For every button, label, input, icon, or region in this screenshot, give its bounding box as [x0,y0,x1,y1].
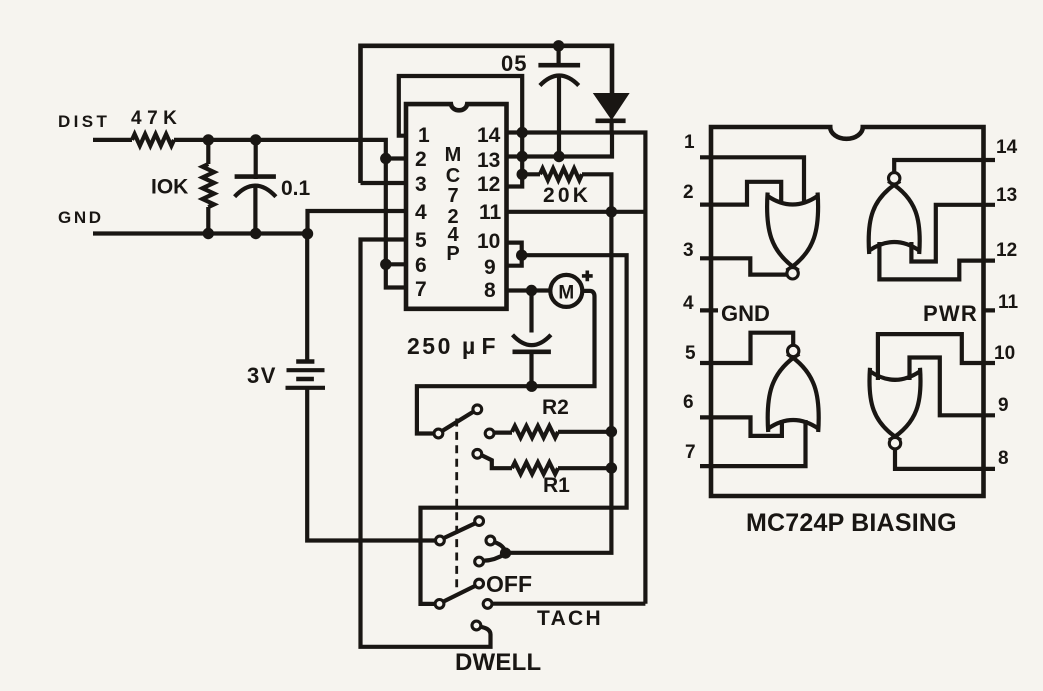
svg-text:TACH: TACH [537,607,603,630]
junction dot pins 9/10 [516,250,527,261]
biasing pin stubs right [984,160,996,469]
plus polarity mark [582,271,593,282]
junction dot DIST/10K [203,134,214,145]
svg-text:GND: GND [58,208,104,227]
junction dot pin 11 [606,206,617,217]
wire pin 7 to G3 input [711,420,806,466]
svg-text:6: 6 [683,392,694,413]
svg-text:14: 14 [477,124,501,147]
gate G3 NOR bottom-left [768,354,819,432]
svg-text:05: 05 [501,51,527,76]
svg-text:PWR: PWR [923,301,978,326]
motor M [417,275,595,434]
svg-text:µ: µ [462,333,475,359]
svg-text:6: 6 [415,254,427,277]
wire pin 12 to G2 input [879,242,983,279]
switch SW1 throw terminal [473,405,482,414]
gate G4 NOR bottom-right [869,368,920,441]
switch SW1 pivot [434,429,443,438]
svg-text:OFF: OFF [486,571,532,597]
svg-text:7: 7 [447,185,458,207]
wire DIST net to pin 2 [174,140,386,159]
SW2 contact upper [486,536,495,545]
junction dot GND/0.1 [250,228,261,239]
wire GND input [93,231,308,235]
switch SW3 pivot [435,600,444,609]
wire common vertical to switch SW2 [506,212,612,553]
wire pin 11 [507,210,646,214]
switch SW2 pivot [436,536,445,545]
svg-text:10: 10 [477,230,500,253]
op IC U1 MC724P outline [406,104,507,309]
TACH terminal [483,600,492,609]
junction dot pin 6 [380,259,391,270]
wire pin 14 to G2 output [894,160,983,172]
svg-text:3: 3 [683,240,694,261]
svg-text:9: 9 [998,395,1009,416]
svg-text:250: 250 [407,333,453,359]
wire pin 9 to G4 input [910,358,984,416]
wire pin 13 to G2 input [911,205,983,262]
wire DIST input [93,138,132,142]
svg-text:DIST: DIST [58,112,110,131]
svg-text:7: 7 [685,442,696,463]
switch SW2 throw terminal [475,517,484,526]
svg-text:M: M [445,144,462,166]
wire pin 3 stub [361,181,407,185]
junction dot pin 13 / 05 cap [553,151,564,162]
resistor R1 [482,455,513,468]
svg-text:MC724P BIASING: MC724P BIASING [746,509,957,537]
wire pin 5 to G3 output [711,333,793,363]
svg-text:8: 8 [484,279,496,302]
biasing pin stubs left [700,157,718,466]
wire pin 8 to motor [507,288,551,292]
svg-text:2: 2 [415,148,427,171]
svg-text:C: C [446,165,460,187]
junction dot R1 [606,462,617,473]
junction dot 250uF bottom [526,381,537,392]
svg-text:14: 14 [996,137,1018,158]
svg-text:13: 13 [477,149,500,172]
junction dot R2 [606,426,617,437]
junction dot GND/10K [203,228,214,239]
svg-text:5: 5 [685,343,696,364]
wire DWELL return to pin 5 [361,240,491,647]
IC name vertical MC724P [445,144,462,265]
svg-text:DWELL: DWELL [455,649,541,676]
biasing pin numbers right [994,137,1019,469]
wire pins 9+10 bracket to lower loop and SW3 [421,243,627,604]
SW2 contact lower [475,557,484,566]
capacitor 0.1 [254,140,258,179]
junction dot SW2 common [500,548,511,559]
svg-text:7: 7 [415,278,427,301]
svg-text:11: 11 [998,292,1019,313]
switch SW3 OFF terminal [475,579,484,588]
svg-text:2: 2 [683,182,694,203]
junction dot 20K left [517,169,528,180]
svg-text:5: 5 [415,229,427,252]
wire pin 14 to right vertical and TACH [507,133,646,604]
wire GND riser to pin 4 [308,211,407,234]
svg-text:3: 3 [415,173,427,196]
resistor 10K [206,140,210,164]
wire TACH [492,602,645,606]
svg-text:F: F [482,333,496,359]
svg-text:4: 4 [415,201,427,224]
gate G2 NOR top-right [869,181,920,254]
battery 3V [286,234,436,541]
svg-text:1: 1 [684,132,695,153]
wire pin 1 to G1 input [711,157,804,204]
svg-text:12: 12 [996,240,1017,261]
svg-text:9: 9 [484,256,496,279]
wire pin 3 to G1 output [711,258,787,274]
junction dot GND/battery [302,228,313,239]
junction dot pin 13 bus [517,151,528,162]
svg-text:4: 4 [683,293,694,314]
switch SW1 lever [442,412,473,431]
wire top rail (pin3 - top - diode) [361,46,613,183]
svg-text:P: P [446,243,459,265]
resistor 20K [522,172,540,176]
wire pin 10 to G4 input [878,334,984,380]
svg-text:R2: R2 [542,396,569,419]
switch SW2 lever [444,523,476,538]
package MC724P outline [711,127,984,496]
wire pin 1 nested loop to pin 14 and pin 12 [399,76,522,187]
diode D1 [595,94,628,133]
svg-text:0.1: 0.1 [281,177,311,200]
svg-text:R1: R1 [543,474,570,497]
svg-text:11: 11 [479,201,502,224]
IC pin numbers right [477,124,502,302]
gate G1 NOR top-left [767,193,818,271]
dashed gang line [455,419,458,590]
wire SW2 contacts join [484,542,506,561]
capacitor 05 [556,46,560,67]
R2 terminal [485,429,494,438]
capacitor 250uF [513,291,551,387]
svg-text:3V: 3V [247,363,277,388]
resistor 47K [132,134,174,146]
IC pin numbers left [415,124,430,301]
DWELL terminal [472,621,481,630]
wire pin 8 to G4 output [895,450,984,469]
wire pin 2 to G1 input [711,182,781,205]
svg-text:13: 13 [996,185,1017,206]
svg-text:20K: 20K [543,184,591,207]
svg-text:8: 8 [998,448,1009,469]
junction dot pin 2 [380,153,391,164]
svg-text:M: M [558,283,574,304]
junction dot pin 14 [517,127,528,138]
wire pin 13 to diode [507,133,613,157]
switch SW3 lever [443,586,475,602]
resistor R2 [494,431,512,435]
wire pin 6 to G3 input [711,417,782,436]
svg-text:GND: GND [721,301,770,326]
biasing pin numbers left [683,132,696,463]
svg-text:12: 12 [477,173,500,196]
svg-text:47K: 47K [131,108,182,129]
junction dot rail/05 cap [553,40,564,51]
svg-text:IOK: IOK [151,176,188,199]
svg-text:1: 1 [418,124,430,147]
svg-text:10: 10 [994,343,1015,364]
junction dot pin 8 / 250uF [526,285,537,296]
junction dot DIST/0.1 [250,134,261,145]
R1 terminal [473,449,482,458]
wire pin2-pin6-pin7 bus [386,159,406,288]
